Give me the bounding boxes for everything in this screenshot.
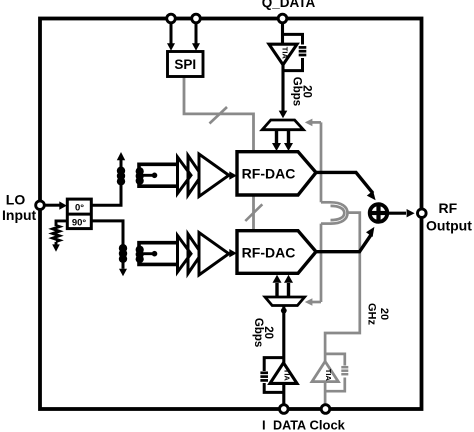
- svg-text:RF: RF: [439, 200, 458, 216]
- svg-text:SPI: SPI: [174, 57, 196, 72]
- demux DM2 (I): [265, 297, 305, 306]
- LO input node: [36, 201, 45, 210]
- svg-text:Q_DATA: Q_DATA: [262, 0, 316, 10]
- amplifier triangle U1: [269, 44, 297, 65]
- svg-text:Input: Input: [2, 207, 37, 223]
- SPI input arrows: [167, 21, 200, 51]
- label RF Output: [426, 200, 472, 234]
- SPI block: [168, 52, 204, 77]
- label 20 Gbps (Q): [291, 77, 313, 106]
- wire I data to demux DM2: [282, 306, 285, 363]
- wire I node to TIA U2: [282, 383, 285, 406]
- svg-text:I: I: [262, 417, 266, 432]
- modulator M2 input box (I path): [136, 243, 178, 265]
- wire Q node to TIA U1: [281, 21, 284, 44]
- wire SPI control bus (gray): [184, 77, 254, 231]
- svg-text:0°: 0°: [75, 203, 84, 214]
- svg-text:GHz: GHz: [365, 303, 377, 326]
- resistor R3 feedback (gray): [341, 367, 348, 374]
- feedback loop: [283, 34, 303, 44]
- wire LO to phase splitter: [45, 201, 67, 209]
- TIA U2 I-data amplifier: [260, 358, 297, 406]
- TIA U3 clock amplifier (gray): [312, 354, 348, 404]
- demux DM1 output arrows to RF-DAC1: [272, 131, 293, 151]
- bias choke L1 with supply arrow (Q path): [91, 152, 125, 205]
- frequency doubler U4 (gray gate): [321, 202, 348, 223]
- svg-text:LO: LO: [6, 192, 26, 208]
- svg-text:RF-DAC: RF-DAC: [242, 166, 296, 182]
- bias choke L2 to ground (I path): [91, 221, 127, 276]
- label LO Input: [2, 192, 37, 223]
- amplifier triangle U2: [270, 363, 297, 384]
- node SPI pad 2: [192, 14, 201, 23]
- svg-text:Gbps: Gbps: [291, 77, 303, 106]
- svg-text:TIA: TIA: [283, 369, 292, 382]
- svg-text:20: 20: [378, 308, 390, 320]
- bus slash marker 2: [245, 204, 262, 221]
- demux DM2 output arrows to RF-DAC U6: [273, 275, 294, 296]
- junction dot: [281, 308, 287, 314]
- svg-text:Output: Output: [426, 218, 472, 234]
- wire 20GHz clock from TIA U3 to doubler (gray): [325, 213, 360, 362]
- svg-text:TIA: TIA: [281, 47, 290, 60]
- label 20 GHz: [365, 303, 390, 326]
- phase splitter 0/90: [67, 199, 91, 229]
- wire RF-DAC U5 to adder: [316, 172, 376, 200]
- wire clock node to TIA U3: [324, 382, 327, 404]
- svg-text:TIA: TIA: [324, 369, 333, 382]
- chip outline border: [40, 19, 422, 410]
- RF-DAC U6 (I): [237, 231, 316, 274]
- wire A2 to RF-DAC U6: [229, 249, 237, 257]
- svg-text:RF-DAC: RF-DAC: [242, 245, 296, 261]
- wire RF-DAC U6 to adder: [316, 227, 374, 252]
- wire clock distribution vertical (gray): [320, 122, 323, 302]
- wire clock to I demux (gray arrow): [305, 298, 321, 306]
- svg-text:Clock: Clock: [310, 417, 346, 432]
- feedback loop: [264, 358, 284, 371]
- node I DATA pad: [280, 405, 289, 414]
- node SPI pad 1: [167, 14, 176, 23]
- amplifier chain A2 (I path): [178, 233, 229, 276]
- adder S1: [370, 204, 388, 222]
- wire adder to RF output: [388, 209, 415, 217]
- node RF output pad: [418, 209, 427, 218]
- demux DM1 (Q): [262, 120, 303, 130]
- wire TIA U1 to demux: [279, 65, 288, 119]
- wire A1 to RF-DAC U5: [229, 171, 237, 179]
- node Q_DATA pad: [278, 14, 287, 23]
- node Clock pad: [321, 405, 330, 414]
- resistor R1 feedback: [299, 47, 307, 55]
- svg-text:Gbps: Gbps: [252, 318, 264, 347]
- amplifier chain A1 (Q path): [178, 154, 229, 197]
- wire clock to Q demux (gray arrow): [305, 119, 321, 127]
- RF-DAC U5 (Q): [237, 152, 316, 195]
- amplifier triangle U3: [312, 361, 338, 381]
- svg-text:90°: 90°: [72, 217, 87, 228]
- TIA U1 Q-data amplifier: [269, 21, 306, 71]
- resistor R2 feedback: [260, 373, 268, 381]
- bus slash marker 1: [210, 107, 228, 124]
- resistor R4 termination to ground: [52, 221, 67, 252]
- label 20 Gbps (I): [252, 318, 274, 347]
- modulator M1 input box (Q path): [136, 164, 178, 186]
- svg-text:DATA: DATA: [273, 418, 306, 432]
